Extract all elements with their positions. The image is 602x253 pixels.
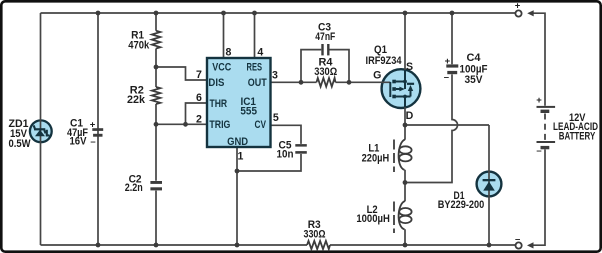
svg-text:47nF: 47nF <box>315 31 335 43</box>
svg-text:BY229-200: BY229-200 <box>438 199 485 211</box>
svg-text:D: D <box>406 110 414 122</box>
svg-text:–: – <box>536 146 541 157</box>
svg-text:–: – <box>90 136 95 147</box>
svg-text:555: 555 <box>240 106 257 118</box>
svg-text:BATTERY: BATTERY <box>559 130 596 142</box>
svg-text:2.2n: 2.2n <box>125 182 143 194</box>
svg-text:470k: 470k <box>128 39 149 51</box>
svg-text:4: 4 <box>257 46 263 58</box>
svg-text:3: 3 <box>272 70 278 82</box>
svg-text:16V: 16V <box>70 136 87 148</box>
svg-text:330Ω: 330Ω <box>314 66 337 78</box>
svg-text:–: – <box>444 72 449 83</box>
svg-text:+: + <box>536 95 542 106</box>
svg-text:THR: THR <box>209 98 227 110</box>
svg-text:+: + <box>515 1 521 12</box>
svg-text:IRF9Z34: IRF9Z34 <box>366 55 402 67</box>
svg-text:+: + <box>445 56 451 67</box>
svg-text:S: S <box>406 61 413 73</box>
svg-text:35V: 35V <box>465 74 483 86</box>
svg-text:10n: 10n <box>277 148 294 160</box>
svg-text:2: 2 <box>196 113 202 125</box>
svg-text:1000µH: 1000µH <box>356 213 390 225</box>
svg-text:8: 8 <box>226 46 232 58</box>
svg-text:CV: CV <box>255 119 267 131</box>
svg-text:DIS: DIS <box>208 77 224 89</box>
svg-text:C4: C4 <box>467 52 481 64</box>
svg-text:22k: 22k <box>127 94 145 106</box>
svg-text:TRIG: TRIG <box>209 119 230 131</box>
svg-text:330Ω: 330Ω <box>304 229 326 241</box>
svg-text:VCC: VCC <box>212 62 231 74</box>
svg-text:6: 6 <box>196 92 202 104</box>
svg-text:220µH: 220µH <box>362 152 390 164</box>
svg-text:0.5W: 0.5W <box>9 138 31 150</box>
svg-text:G: G <box>373 70 381 82</box>
svg-text:OUT: OUT <box>248 77 267 89</box>
svg-text:1: 1 <box>238 151 244 163</box>
svg-text:RES: RES <box>247 62 263 74</box>
svg-text:GND: GND <box>227 136 248 148</box>
svg-text:+: + <box>90 119 96 130</box>
svg-text:7: 7 <box>196 69 202 81</box>
svg-text:–: – <box>515 234 520 245</box>
svg-text:5: 5 <box>273 112 279 124</box>
